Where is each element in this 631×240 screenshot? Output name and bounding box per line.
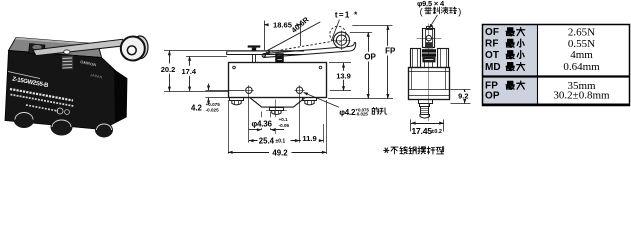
- svg-text:13.9: 13.9: [336, 71, 351, 80]
- svg-text:17.4: 17.4: [181, 67, 196, 76]
- svg-text:0.55N: 0.55N: [568, 38, 595, 50]
- svg-text:t=1 *: t=1 *: [335, 10, 359, 19]
- svg-text:-0.025: -0.025: [206, 108, 219, 113]
- svg-text:20.2: 20.2: [161, 65, 176, 74]
- svg-text:30.2±0.8mm: 30.2±0.8mm: [553, 90, 610, 102]
- svg-text:(: (: [420, 6, 423, 16]
- svg-text:MD: MD: [485, 62, 501, 73]
- svg-text:±0.2: ±0.2: [431, 129, 442, 135]
- svg-text:17.45: 17.45: [412, 126, 433, 136]
- svg-text:OP: OP: [364, 53, 376, 62]
- svg-text:2.65N: 2.65N: [568, 26, 595, 38]
- svg-text:FP: FP: [385, 46, 396, 55]
- svg-text:φ4.36: φ4.36: [252, 120, 273, 129]
- svg-text:11.9: 11.9: [302, 134, 316, 143]
- svg-text:+0.075: +0.075: [206, 102, 221, 107]
- svg-text:25.4: 25.4: [259, 137, 275, 146]
- svg-text:): ): [458, 6, 461, 16]
- svg-text:18.65: 18.65: [273, 21, 293, 30]
- svg-text:9.2: 9.2: [458, 91, 468, 100]
- svg-text:OF: OF: [485, 27, 499, 38]
- svg-text:+0.1: +0.1: [279, 117, 289, 122]
- svg-text:0.64mm: 0.64mm: [563, 61, 600, 73]
- svg-text:φ4.2: φ4.2: [339, 108, 356, 117]
- svg-text:-0.025: -0.025: [355, 111, 368, 116]
- svg-text:RF: RF: [485, 39, 499, 50]
- svg-text:4mm: 4mm: [570, 49, 593, 61]
- svg-text:OT: OT: [485, 50, 499, 61]
- svg-text:OP: OP: [485, 90, 500, 101]
- svg-text:±0.1: ±0.1: [276, 138, 286, 144]
- svg-text:49.2: 49.2: [272, 148, 288, 157]
- svg-text:4.2: 4.2: [191, 104, 203, 113]
- svg-text:-0.05: -0.05: [279, 123, 290, 128]
